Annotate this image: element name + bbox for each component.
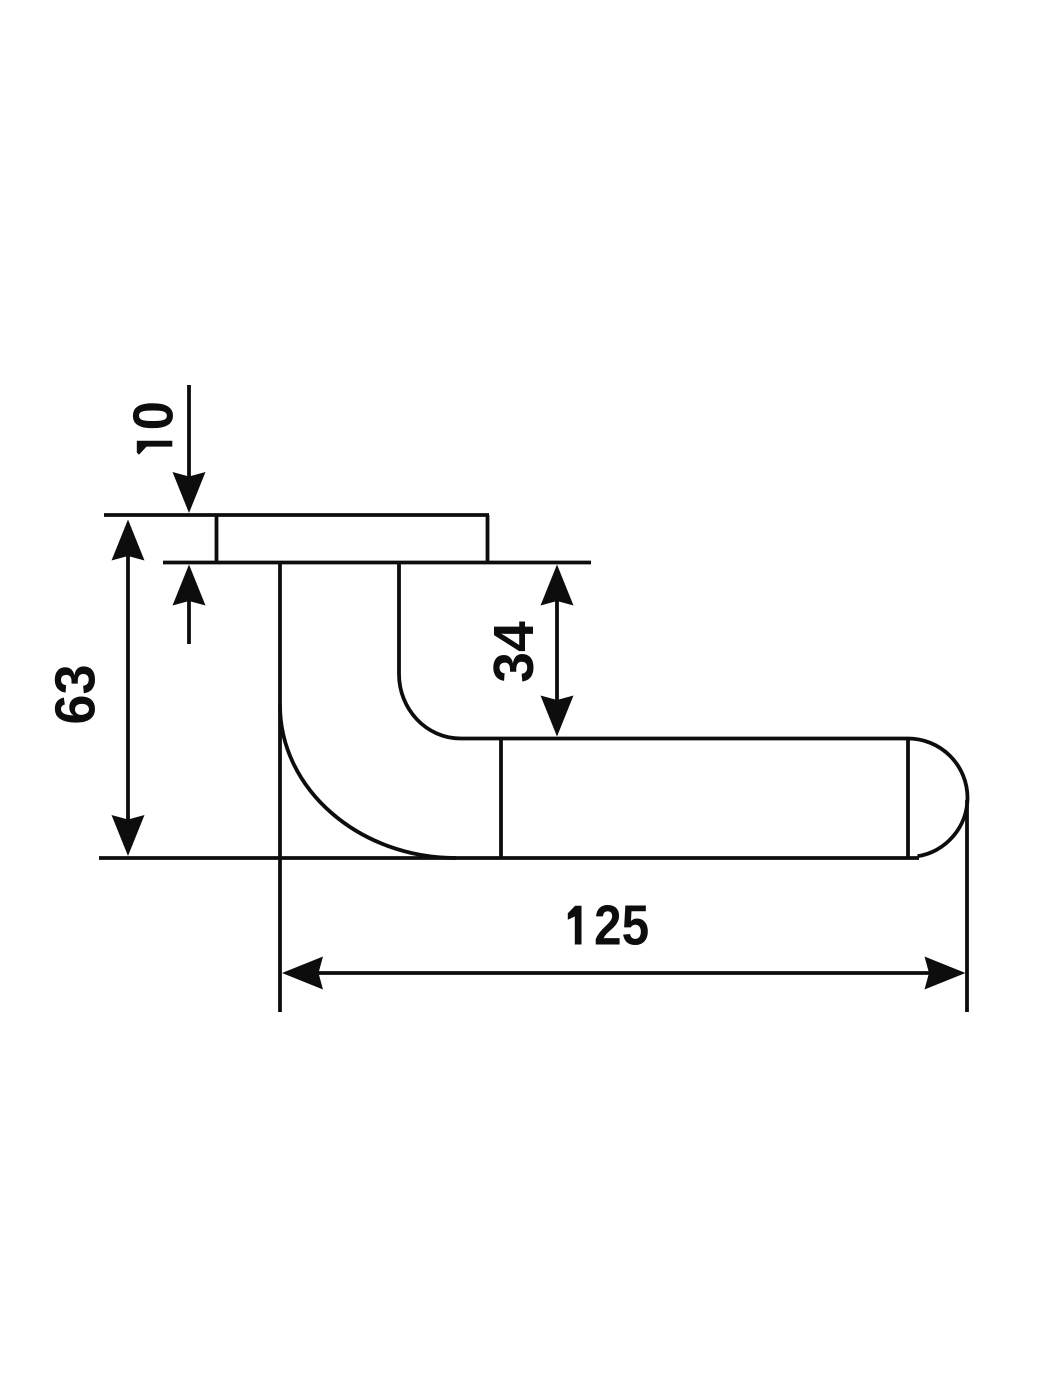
dimension 63: dimension line bbox=[126, 552, 130, 824]
handle neck right edge with inner fillet curve bbox=[399, 562, 461, 739]
svg-text:25: 25 bbox=[594, 894, 649, 957]
end cap seam line bbox=[906, 739, 910, 859]
dimension 125: right extension line bbox=[965, 800, 969, 1012]
dimension 34: dimension line bbox=[555, 598, 559, 703]
svg-text:34: 34 bbox=[481, 621, 545, 682]
rosette right edge bbox=[486, 515, 490, 563]
svg-text:0: 0 bbox=[120, 401, 185, 430]
handle neck left curve into grip underside bbox=[280, 705, 456, 858]
dimension 34: top arrowhead pointing up bbox=[541, 565, 574, 606]
rosette left edge bbox=[215, 515, 219, 563]
dimension 10: lower arrowhead pointing up bbox=[173, 565, 206, 606]
grip seam line bbox=[499, 739, 503, 859]
dimension 10: label text bbox=[120, 401, 185, 455]
dimension 10: shaft above bbox=[187, 385, 191, 480]
handle neck left edge (straight part, continues as extension line of dimension 125) bbox=[278, 562, 282, 1012]
dimension 34: bottom arrowhead pointing down bbox=[541, 696, 574, 737]
baseline / grip bottom line bbox=[99, 856, 919, 860]
grip top line bbox=[461, 737, 908, 741]
rosette outer face line bbox=[104, 513, 489, 517]
dimension 125: left arrowhead bbox=[282, 957, 323, 990]
svg-text:63: 63 bbox=[43, 664, 107, 724]
dimension 125: right arrowhead bbox=[925, 957, 966, 990]
end cap rounded arc bbox=[908, 739, 968, 857]
dimension 125: label text bbox=[568, 894, 649, 957]
dimension 125: dimension line bbox=[316, 971, 932, 975]
dimension 63: top arrowhead pointing up bbox=[112, 520, 145, 561]
dimension 10: lower shaft bbox=[187, 598, 191, 644]
dimension 10: upper arrowhead pointing down bbox=[173, 472, 206, 513]
dimension 63: bottom arrowhead pointing down bbox=[112, 815, 145, 856]
door surface line bbox=[163, 561, 591, 565]
